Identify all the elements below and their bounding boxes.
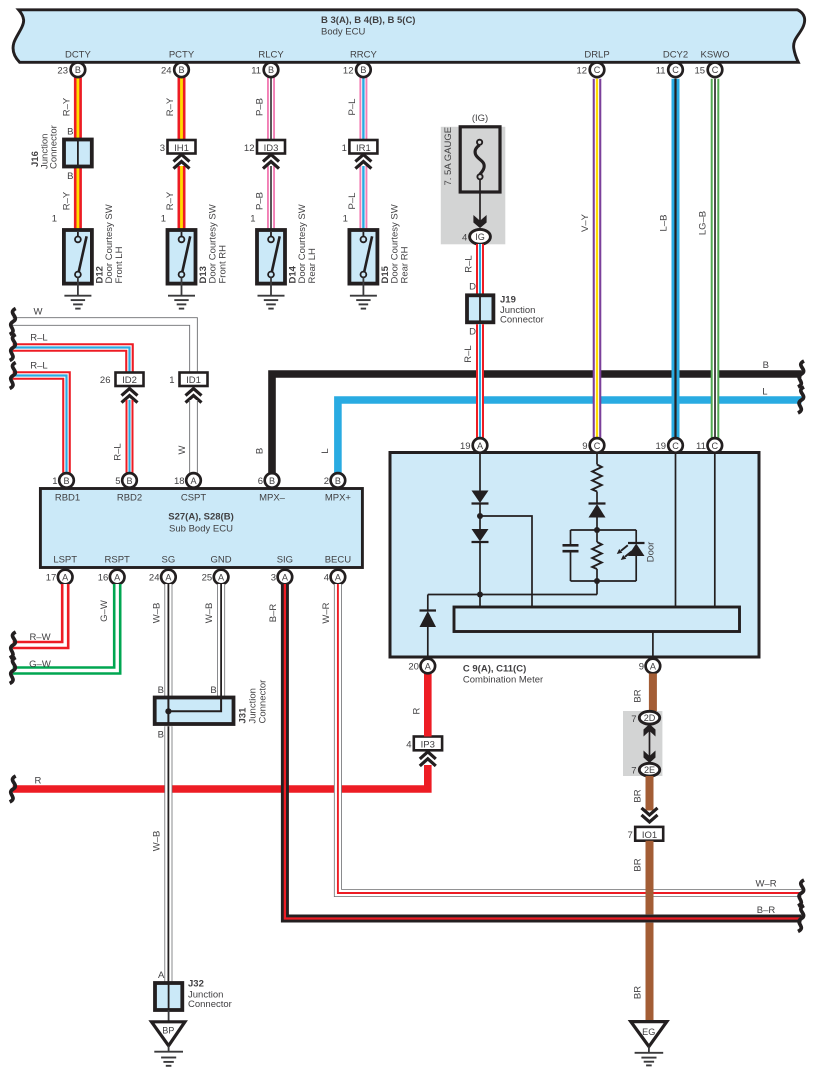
svg-text:B–R: B–R: [268, 604, 279, 623]
svg-text:7. 5A GAUGE: 7. 5A GAUGE: [443, 127, 454, 186]
svg-text:ID2: ID2: [122, 375, 137, 386]
svg-text:B: B: [158, 730, 164, 741]
svg-text:B: B: [67, 127, 73, 138]
break (R-L lower): [10, 363, 16, 389]
svg-text:9: 9: [639, 662, 644, 673]
break (R-W): [10, 632, 16, 658]
wire W-B GND to J31: [217, 584, 225, 699]
svg-text:A: A: [165, 572, 172, 582]
resistor branch (parallel): [592, 530, 602, 581]
wire fuse to IG: [479, 180, 481, 223]
wire R-L J19 to combination meter pin 19(A), crosses over B and L: [476, 324, 484, 445]
svg-text:11: 11: [251, 66, 261, 77]
pin 4(A) BECU: [324, 570, 345, 585]
pin 11(B) RLCY: [251, 63, 278, 78]
svg-text:LSPT: LSPT: [53, 555, 77, 566]
svg-text:18: 18: [174, 476, 185, 487]
svg-text:Connector: Connector: [188, 999, 232, 1010]
svg-text:P–B: P–B: [255, 192, 266, 210]
svg-text:W–R: W–R: [321, 602, 332, 623]
break (G-W): [10, 658, 16, 684]
svg-text:LG–B: LG–B: [698, 211, 709, 235]
diode D inside meter (upper, from 19A): [472, 491, 489, 504]
wire V-Y DRLP to combination meter: [593, 79, 602, 445]
node dot (480,594.5): [477, 592, 483, 598]
meter internal: line from pin 11(C): [714, 454, 716, 607]
svg-text:3: 3: [271, 573, 276, 584]
svg-text:B: B: [178, 65, 184, 75]
pin 5(B) RBD2: [115, 473, 136, 488]
wire B (MPX-) corner to right break: [272, 374, 802, 478]
svg-text:ID1: ID1: [186, 375, 201, 386]
svg-text:3: 3: [160, 143, 165, 154]
svg-text:W: W: [177, 445, 188, 454]
svg-text:B: B: [67, 171, 73, 182]
svg-text:C: C: [712, 65, 719, 75]
svg-text:DCY2: DCY2: [663, 50, 688, 61]
wire LG-B KSWO to combination meter: [711, 79, 720, 445]
svg-text:19: 19: [460, 441, 471, 452]
pin 17(A) LSPT: [46, 570, 73, 585]
svg-text:G–W: G–W: [99, 600, 110, 622]
svg-text:6: 6: [258, 476, 263, 487]
svg-text:B: B: [210, 685, 216, 696]
wire R-L ID2 to RBD2: [126, 400, 134, 478]
connector 7 IO1: [628, 827, 664, 841]
svg-text:SIG: SIG: [277, 555, 293, 566]
pin 12(C) DRLP: [577, 63, 605, 78]
diode up (under resistor): [589, 504, 606, 518]
switch D13 Door Courtesy SW Front RH: [168, 204, 229, 295]
svg-text:CSPT: CSPT: [181, 492, 207, 503]
pin 12(B) RRCY: [343, 63, 371, 78]
svg-text:PCTY: PCTY: [169, 50, 195, 61]
pin 16(A) RSPT: [98, 570, 125, 585]
svg-text:W–R: W–R: [755, 879, 776, 890]
svg-text:SG: SG: [162, 555, 176, 566]
wire L-B DCY2 to combination meter: [672, 79, 680, 445]
ground (D12): [64, 296, 91, 309]
node dot (597,581): [594, 578, 600, 584]
svg-text:MPX–: MPX–: [259, 492, 286, 503]
svg-text:20: 20: [408, 662, 419, 673]
svg-text:D: D: [469, 327, 476, 338]
svg-text:R: R: [411, 707, 422, 714]
svg-text:7: 7: [628, 830, 633, 841]
svg-text:4: 4: [324, 573, 329, 584]
svg-text:B: B: [360, 65, 366, 75]
pin 1(B) RBD1: [52, 473, 73, 488]
svg-text:Rear LH: Rear LH: [307, 248, 318, 284]
svg-text:R–Y: R–Y: [62, 97, 73, 116]
wire R-L upper from left break to ID2: [13, 348, 130, 375]
node dot (597,530): [594, 527, 600, 533]
svg-text:A: A: [335, 572, 342, 582]
switch D15 Door Courtesy SW Rear RH: [349, 204, 410, 295]
pin 20(A) meter: [408, 659, 435, 674]
svg-text:RBD2: RBD2: [117, 492, 142, 503]
ground (D15): [350, 296, 377, 309]
svg-text:Connector: Connector: [258, 680, 269, 724]
svg-text:GND: GND: [211, 555, 232, 566]
svg-text:RSPT: RSPT: [105, 555, 131, 566]
svg-text:B: B: [269, 476, 275, 486]
pin 9(C) meter: [582, 438, 604, 453]
svg-text:24: 24: [161, 66, 172, 77]
wire W ID1 to CSPT: [189, 400, 198, 478]
svg-text:W: W: [34, 307, 43, 318]
wire P-L RRCY to IR1: [359, 76, 367, 140]
ground (D13): [168, 296, 195, 309]
break (W left): [10, 309, 16, 335]
svg-text:IP3: IP3: [421, 740, 435, 751]
svg-text:B: B: [126, 476, 132, 486]
wire inner block to pin 9(A): [652, 632, 654, 657]
wire R-Y PCTY to IH1: [178, 76, 186, 140]
svg-text:KSWO: KSWO: [700, 50, 729, 61]
svg-text:A: A: [477, 441, 484, 451]
wire W-B SG to J31: [164, 584, 172, 699]
wire P-L IR1 to D15: [359, 166, 367, 231]
svg-text:IO1: IO1: [642, 830, 657, 841]
connector 1 ID1: [169, 373, 207, 403]
svg-text:R–L: R–L: [30, 333, 47, 344]
svg-text:1: 1: [52, 476, 57, 487]
resistor (meter): [592, 465, 602, 492]
svg-text:A: A: [282, 572, 289, 582]
svg-text:V–Y: V–Y: [580, 213, 591, 232]
Sub Body ECU S27(A),S28(B) box: [40, 489, 362, 568]
svg-text:B: B: [158, 685, 164, 696]
svg-text:A: A: [158, 970, 165, 981]
arrow into IG: [473, 215, 486, 228]
wire resistor to diode4: [596, 492, 598, 505]
svg-text:Connector: Connector: [500, 315, 544, 326]
junction connector J19: [467, 295, 544, 326]
switch D14 Door Courtesy SW Rear LH: [257, 204, 318, 295]
meter inner block: [454, 607, 740, 632]
capacitor branch: [563, 530, 579, 581]
svg-text:BECU: BECU: [325, 555, 352, 566]
svg-text:19: 19: [656, 441, 667, 452]
svg-text:17: 17: [46, 573, 57, 584]
meter internal: lead from pin 9(C): [596, 454, 598, 465]
wire R-L lower from left break to RBD1: [13, 376, 67, 479]
svg-text:BR: BR: [633, 689, 644, 702]
svg-text:B: B: [75, 65, 81, 75]
svg-text:4: 4: [462, 233, 467, 244]
wire R-Y IH1 to D13: [178, 166, 186, 231]
svg-text:7: 7: [631, 766, 636, 777]
connector 26 ID2: [100, 373, 144, 403]
svg-text:R–W: R–W: [29, 632, 50, 643]
svg-text:23: 23: [57, 66, 68, 77]
LED Door branch: [617, 530, 645, 581]
svg-text:L–B: L–B: [659, 215, 670, 232]
svg-text:P–L: P–L: [347, 99, 358, 116]
svg-text:R: R: [34, 776, 41, 787]
svg-text:BR: BR: [633, 986, 644, 999]
svg-text:12: 12: [343, 66, 354, 77]
svg-text:IH1: IH1: [174, 143, 189, 154]
pin 3(A) SIG: [271, 570, 292, 585]
svg-text:IG: IG: [475, 232, 485, 242]
diode D inside meter (lower): [472, 529, 489, 542]
connector 4 IP3: [406, 737, 442, 766]
svg-text:B–R: B–R: [757, 905, 776, 916]
pin 2(B) MPX+: [324, 473, 345, 488]
svg-text:RRCY: RRCY: [350, 50, 378, 61]
svg-text:R–L: R–L: [113, 443, 124, 460]
svg-text:A: A: [62, 572, 69, 582]
svg-text:2: 2: [324, 476, 329, 487]
svg-text:B: B: [63, 476, 69, 486]
wire BR 2E to IO1: [646, 776, 654, 811]
svg-text:(IG): (IG): [472, 113, 488, 124]
svg-text:A: A: [650, 661, 657, 671]
svg-text:Rear RH: Rear RH: [400, 246, 411, 283]
svg-text:R–Y: R–Y: [62, 191, 73, 210]
wire diode4 to top rail: [596, 518, 598, 531]
pin 15(C) KSWO: [695, 63, 723, 78]
svg-text:A: A: [114, 572, 121, 582]
wire L (MPX+) corner to right break: [338, 400, 802, 478]
svg-text:DRLP: DRLP: [584, 50, 609, 61]
svg-text:16: 16: [98, 573, 109, 584]
wire W from left break to ID1: [13, 322, 194, 375]
svg-text:W–B: W–B: [151, 603, 162, 624]
diode3 column down to pin 20(A): [427, 595, 429, 611]
connector 1 IR1: [342, 140, 378, 169]
svg-text:RLCY: RLCY: [258, 50, 284, 61]
svg-text:1: 1: [343, 214, 348, 225]
pin 11(C) DCY2: [656, 63, 683, 78]
pin 4 (IG) oval: [462, 229, 490, 244]
meter internal: line from pin 19(C): [675, 454, 677, 607]
svg-text:L: L: [320, 448, 331, 453]
svg-text:5: 5: [115, 476, 120, 487]
wire B-R SIG to right break: [285, 584, 802, 919]
svg-text:A: A: [190, 476, 197, 486]
svg-text:W–B: W–B: [204, 603, 215, 624]
breaks for W-R / B-R right: [798, 880, 804, 906]
pin 23(B) DCTY: [57, 63, 85, 78]
junction connector J32: [155, 970, 232, 1010]
svg-text:C: C: [672, 441, 679, 451]
pin 19(C) meter: [656, 438, 683, 453]
svg-text:MPX+: MPX+: [325, 492, 352, 503]
fuse block background: [441, 127, 506, 245]
ground triangle BP: [152, 1022, 185, 1066]
svg-text:9: 9: [582, 441, 587, 452]
svg-text:2D: 2D: [644, 713, 656, 723]
svg-text:26: 26: [100, 375, 111, 386]
wire R-Y J16 to D12: [74, 166, 82, 231]
pin 6(B) MPX-: [258, 473, 279, 488]
wire W-R BECU to right break: [338, 584, 802, 893]
svg-text:IR1: IR1: [356, 143, 371, 154]
svg-text:Body ECU: Body ECU: [321, 27, 365, 38]
svg-text:EG: EG: [642, 1027, 655, 1037]
svg-text:P–B: P–B: [255, 98, 266, 116]
svg-text:Front LH: Front LH: [114, 246, 125, 283]
svg-text:R–L: R–L: [464, 255, 475, 272]
svg-text:B 3(A), B 4(B), B 5(C): B 3(A), B 4(B), B 5(C): [321, 15, 415, 26]
pin 7(2E): [631, 763, 659, 776]
svg-text:1: 1: [169, 375, 174, 386]
break (R left): [10, 776, 16, 802]
svg-text:B: B: [255, 448, 266, 454]
svg-text:2E: 2E: [644, 765, 655, 775]
wire J32 to BP ground: [168, 1010, 170, 1022]
svg-text:A: A: [218, 572, 225, 582]
svg-text:Door: Door: [646, 542, 657, 563]
node dot (480,516): [477, 513, 483, 519]
svg-text:B: B: [335, 476, 341, 486]
svg-text:C 9(A), C11(C): C 9(A), C11(C): [463, 664, 526, 675]
branch node to inner block: [480, 516, 532, 607]
meter internal: lead from pin 19(A): [479, 454, 481, 491]
pin 9(A) meter: [639, 659, 660, 674]
svg-text:C: C: [672, 65, 679, 75]
wire BR IO1 down to EG, crosses W-R and under B-R: [646, 841, 654, 915]
svg-text:L: L: [762, 387, 767, 398]
pin 24(A) SG: [149, 570, 176, 585]
break (L wire right): [798, 387, 804, 413]
svg-text:24: 24: [149, 573, 160, 584]
pin 7(2D): [631, 711, 659, 725]
svg-text:12: 12: [244, 143, 255, 154]
svg-text:DCTY: DCTY: [65, 50, 92, 61]
chevron into IO1: [642, 808, 658, 822]
svg-text:R–Y: R–Y: [165, 191, 176, 210]
wire BR pin 9(A) to 2D: [649, 674, 657, 713]
ground (D14): [258, 296, 285, 309]
svg-text:P–L: P–L: [347, 193, 358, 210]
svg-text:R–L: R–L: [463, 345, 474, 362]
svg-text:A: A: [425, 661, 432, 671]
svg-text:Combination Meter: Combination Meter: [463, 675, 543, 686]
svg-text:4: 4: [406, 740, 411, 751]
wire G-W RSPT to left break: [13, 584, 118, 671]
svg-text:J19: J19: [500, 295, 516, 306]
svg-text:ID3: ID3: [264, 143, 279, 154]
svg-text:S27(A), S28(B): S27(A), S28(B): [168, 512, 233, 523]
Body ECU B3(A),B4(B),B5(C) block: [13, 10, 805, 63]
diode up (to pin 20A): [420, 611, 437, 628]
wire R IP3 to meter pin 20(A): [424, 673, 432, 737]
svg-text:C: C: [594, 65, 601, 75]
svg-text:BP: BP: [162, 1026, 174, 1036]
junction connector J31: [155, 680, 269, 724]
pin 19(A) meter: [460, 438, 487, 453]
svg-text:15: 15: [695, 66, 706, 77]
svg-text:RBD1: RBD1: [55, 492, 80, 503]
svg-text:R–Y: R–Y: [165, 97, 176, 116]
junction connector J16: [30, 125, 92, 182]
rail to diode3 column: [428, 594, 597, 596]
Combination Meter C9(A),C11(C) box: [390, 453, 759, 658]
wire diode2 down to rail: [479, 542, 481, 607]
wire P-B RLCY to ID3: [267, 76, 275, 140]
wire R-L IG to J19: [476, 244, 484, 297]
svg-text:B: B: [763, 360, 769, 371]
wire R-Y DCTY to J16: [74, 76, 82, 140]
svg-text:R–L: R–L: [30, 361, 47, 372]
svg-text:1: 1: [250, 214, 255, 225]
connector 3 IH1: [160, 140, 196, 169]
arrow link 2D-2E: [644, 724, 656, 763]
pin 24(B) PCTY: [161, 63, 189, 78]
pin 11(C) meter: [696, 438, 722, 453]
switch D12 Door Courtesy SW Front LH: [64, 204, 125, 295]
svg-text:W–B: W–B: [151, 831, 162, 852]
svg-text:25: 25: [202, 573, 213, 584]
svg-text:12: 12: [577, 66, 588, 77]
svg-text:Connector: Connector: [49, 125, 60, 169]
svg-text:J32: J32: [188, 979, 204, 990]
pin 18(A) CSPT: [174, 473, 201, 488]
svg-text:7: 7: [631, 714, 636, 725]
pin 25(A) GND: [202, 570, 229, 585]
svg-text:11: 11: [656, 66, 666, 77]
wire diode3 to meter bottom: [427, 627, 429, 656]
wire diode1 to node: [479, 504, 481, 530]
wire W-B J31 to J32: [164, 726, 172, 984]
svg-text:BR: BR: [633, 789, 644, 802]
parallel network rails: [571, 530, 637, 581]
svg-text:C: C: [712, 441, 719, 451]
break (B wire right): [798, 361, 804, 387]
wire R from left break to IP3 riser: [13, 765, 428, 789]
svg-text:Front RH: Front RH: [218, 245, 229, 284]
svg-text:Sub Body ECU: Sub Body ECU: [169, 524, 233, 535]
svg-text:1: 1: [342, 143, 347, 154]
wire R-W LSPT to left break: [13, 584, 65, 645]
wire P-B ID3 to D14: [267, 166, 275, 231]
fuse 7.5A GAUGE: [443, 127, 500, 192]
connector 12 ID3: [244, 140, 285, 169]
svg-text:D: D: [469, 282, 476, 293]
svg-text:11: 11: [696, 441, 706, 452]
ground triangle EG: [631, 1022, 667, 1066]
svg-text:B: B: [268, 65, 274, 75]
svg-text:C: C: [594, 441, 601, 451]
wire network bottom to rail: [596, 581, 598, 595]
break (R-L upper): [10, 335, 16, 361]
svg-text:1: 1: [52, 214, 57, 225]
svg-text:G–W: G–W: [29, 659, 51, 670]
svg-text:BR: BR: [633, 858, 644, 871]
connector block 2D/2E background: [623, 711, 662, 776]
svg-text:1: 1: [161, 214, 166, 225]
